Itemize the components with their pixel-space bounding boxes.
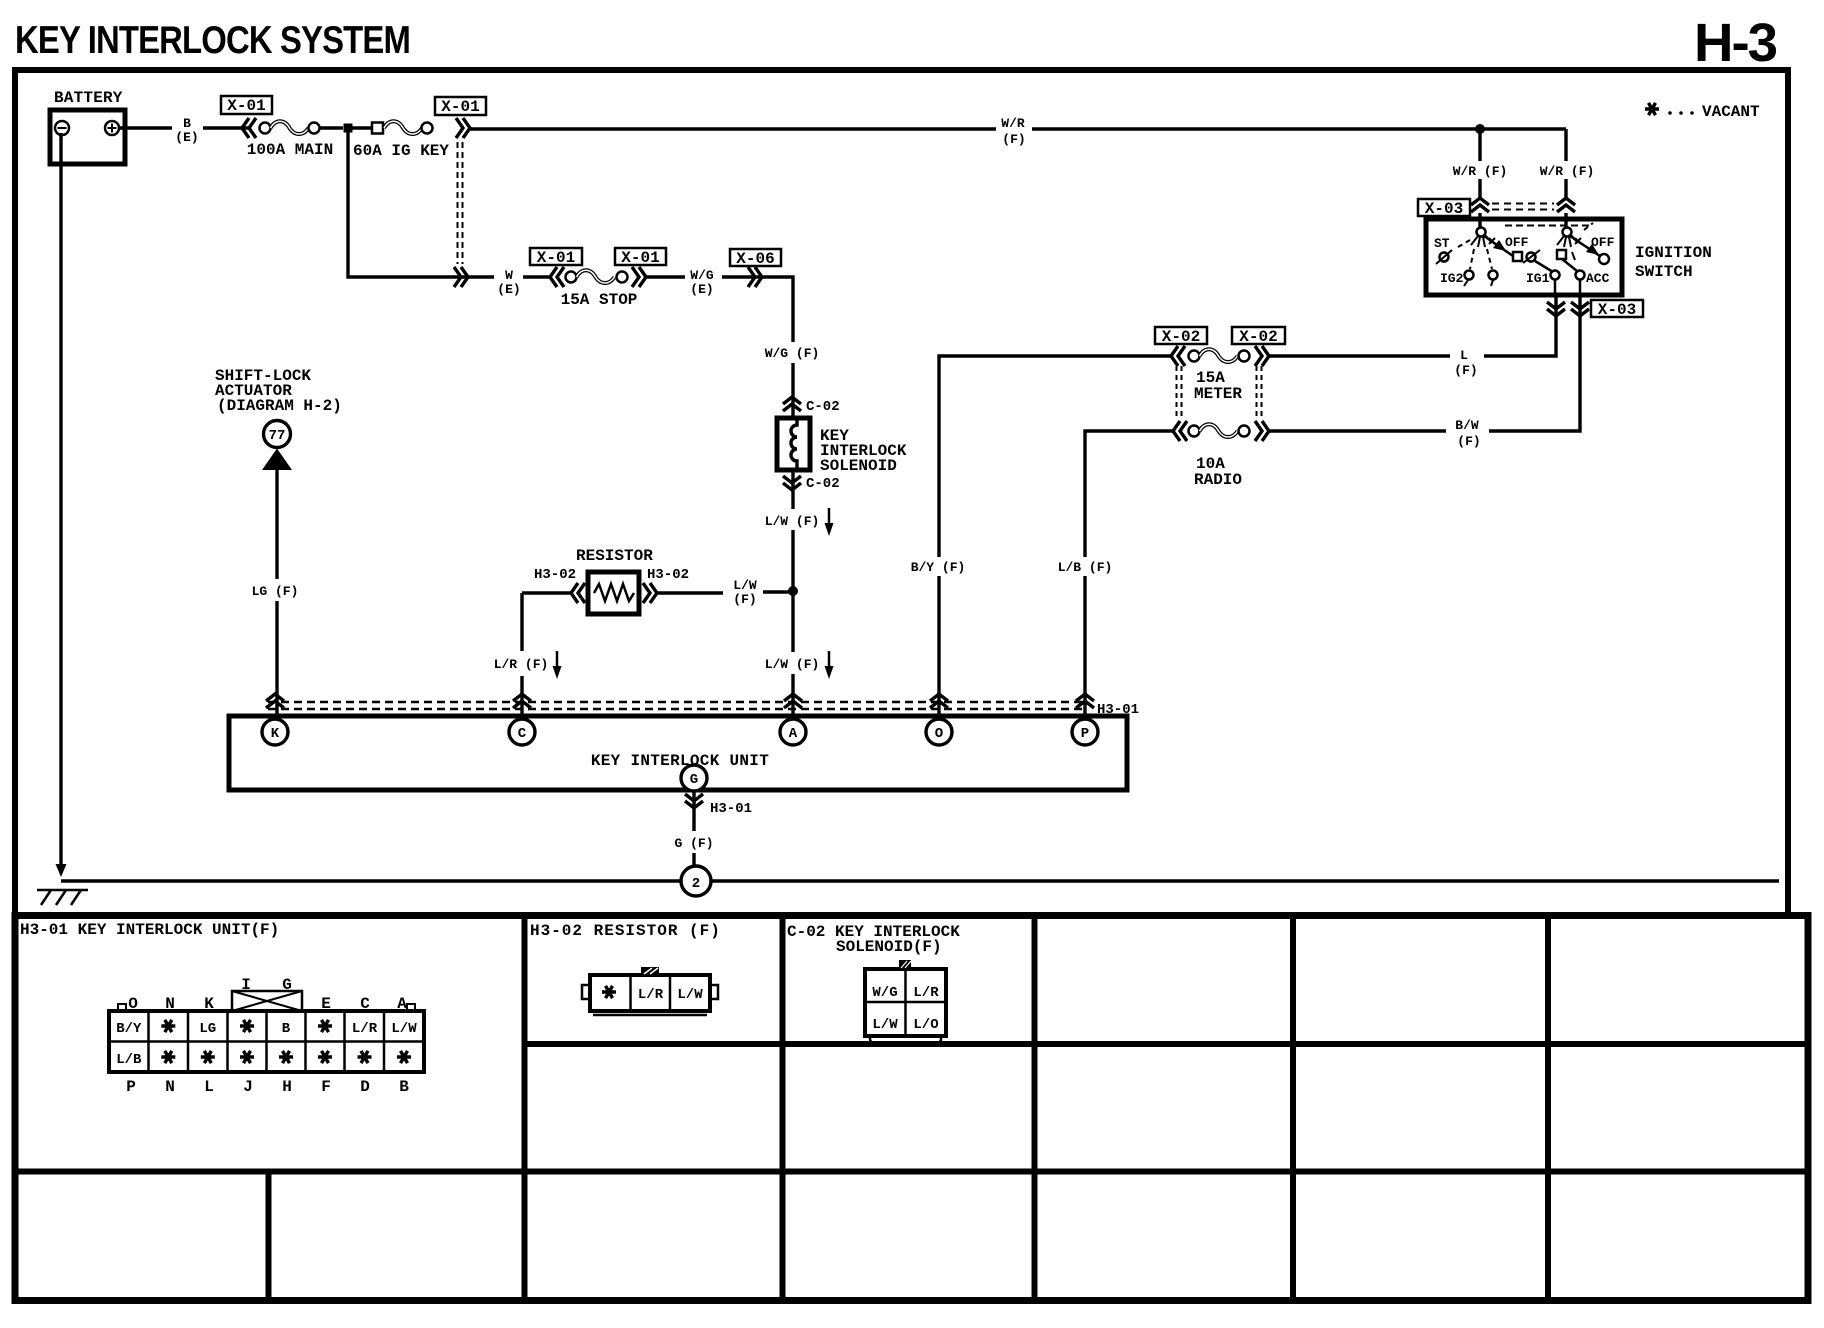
fuse 15A METER <box>1189 349 1250 403</box>
pin G <box>681 765 707 791</box>
legend vacant note <box>1645 103 1760 121</box>
svg-text:L/R: L/R <box>638 987 664 1003</box>
svg-text:L/W: L/W <box>677 987 703 1003</box>
svg-text:W/G: W/G <box>872 985 897 1001</box>
svg-text:O: O <box>128 995 138 1013</box>
ignition switch ST contact <box>1434 236 1470 264</box>
connector X-06 label box <box>730 249 781 268</box>
svg-text:(F): (F) <box>1002 132 1025 147</box>
ignition switch vacant contact left <box>1487 249 1498 286</box>
connector chevron out of 15A STOP <box>632 267 646 287</box>
connector H3-02 pinout drawing <box>582 967 718 1015</box>
svg-text:KEY INTERLOCK UNIT: KEY INTERLOCK UNIT <box>591 752 769 770</box>
resistor <box>588 572 639 614</box>
svg-text:K: K <box>204 995 214 1013</box>
svg-text:O: O <box>935 726 943 742</box>
wire W/R branch to left ignition pivot <box>1478 129 1481 228</box>
connector H3-01 chevron pin K <box>266 694 284 708</box>
wire actuator to unit pin K <box>275 470 278 719</box>
table outer border <box>15 916 1808 1301</box>
junction node W/R at ignition <box>1475 124 1485 134</box>
connector C-02 chevron out <box>783 476 801 490</box>
svg-text:OFF: OFF <box>1505 235 1529 250</box>
shift-lock actuator off-page circle 77 <box>264 421 291 448</box>
connector X-01 chevron on main feed <box>242 118 256 138</box>
svg-text:A: A <box>397 995 407 1013</box>
svg-text:2: 2 <box>692 876 700 892</box>
connector X-01 chevron on W wire <box>454 267 468 287</box>
pin O <box>926 719 952 745</box>
svg-text:BATTERY: BATTERY <box>54 89 123 107</box>
connector X-06 chevron <box>748 267 762 287</box>
svg-text:RADIO: RADIO <box>1194 471 1242 489</box>
wire battery positive to B(E) label <box>119 126 172 129</box>
connector X-03 chevron ACC out <box>1571 302 1589 316</box>
svg-text:L/O: L/O <box>913 1017 938 1033</box>
svg-text:L/R: L/R <box>352 1021 378 1037</box>
ignition switch right OFF arm <box>1570 235 1615 264</box>
connector chevron into resistor <box>571 583 585 603</box>
connector X-03 label box top <box>1418 199 1470 218</box>
connector X-01 chevron out <box>456 118 470 138</box>
connector X-01 label box (stop fuse right) <box>615 248 666 267</box>
connector X-02 dashed links <box>1177 366 1262 420</box>
connector C-02 pinout drawing <box>865 960 946 1043</box>
svg-text:B: B <box>282 1021 291 1037</box>
shift-lock actuator arrow <box>262 449 292 471</box>
svg-text:LG: LG <box>199 1021 216 1037</box>
wire battery negative to ground <box>59 133 62 866</box>
svg-text:G: G <box>282 976 292 994</box>
svg-text:E: E <box>321 995 331 1013</box>
svg-text:L/B (F): L/B (F) <box>1058 560 1113 575</box>
connector chevron out of 15A METER <box>1255 346 1269 366</box>
connector chevron into 10A RADIO <box>1173 421 1187 441</box>
svg-text:H3-01 KEY INTERLOCK UNIT(F): H3-01 KEY INTERLOCK UNIT(F) <box>20 921 279 939</box>
svg-text:A: A <box>789 726 798 742</box>
pin K <box>262 719 288 745</box>
svg-text:D: D <box>360 1078 370 1096</box>
ground bus wire <box>61 879 1779 882</box>
junction node resistor/solenoid <box>788 586 798 596</box>
battery <box>50 110 125 164</box>
svg-text:IG1: IG1 <box>1526 271 1550 286</box>
wire fuse1 to junction <box>320 126 343 129</box>
svg-text:H-3: H-3 <box>1694 13 1777 73</box>
connector H3-01 chevron pin C <box>513 694 531 708</box>
svg-text:X-01: X-01 <box>441 98 479 116</box>
svg-text:B: B <box>183 116 191 131</box>
ignition switch IG1 contact pair <box>1523 250 1560 286</box>
svg-text:L/R (F): L/R (F) <box>494 657 549 672</box>
svg-text:G (F): G (F) <box>674 836 713 851</box>
svg-text:C: C <box>518 726 527 742</box>
wire radio fuse to B/W label <box>1269 429 1446 432</box>
svg-text:W/G: W/G <box>690 268 714 283</box>
svg-text:B/Y (F): B/Y (F) <box>911 560 966 575</box>
svg-text:L/W (F): L/W (F) <box>765 514 820 529</box>
connector X-03 chevron right <box>1557 198 1575 212</box>
svg-text:X-03: X-03 <box>1425 200 1463 218</box>
ignition switch vacant contact right <box>1557 250 1575 260</box>
ground symbol <box>37 890 88 905</box>
connector H3-01 chevron pin O <box>930 694 948 708</box>
wire label L/W (F) lower <box>765 651 834 679</box>
svg-text:L/R: L/R <box>913 985 939 1001</box>
main schematic border frame <box>15 70 1788 916</box>
connector H3-01 row 2 wire codes <box>116 1051 411 1068</box>
svg-text:W/R: W/R <box>1001 116 1025 131</box>
ignition switch left OFF arm <box>1484 235 1529 261</box>
svg-text:C: C <box>360 995 370 1013</box>
svg-text:W/R (F): W/R (F) <box>1453 164 1508 179</box>
table column line 2 <box>780 917 786 1298</box>
connector H3-01 bottom pin letters <box>126 1078 409 1096</box>
svg-text:(E): (E) <box>497 282 520 297</box>
svg-text:77: 77 <box>269 428 286 444</box>
wire pin G to ground circle <box>692 791 695 866</box>
connector chevron out of 10A RADIO <box>1255 421 1269 441</box>
connector X-03 chevron left <box>1471 198 1489 212</box>
table column line 3 <box>1032 917 1038 1298</box>
svg-text:X-01: X-01 <box>227 97 265 115</box>
svg-text:LG (F): LG (F) <box>252 584 299 599</box>
connector X-01 label box (right) <box>435 97 486 116</box>
svg-text:L/B: L/B <box>116 1052 142 1068</box>
connector X-03 label box bottom <box>1591 300 1643 319</box>
key interlock unit U1 <box>229 716 1127 790</box>
svg-text:H: H <box>282 1078 292 1096</box>
svg-text:G: G <box>690 772 698 788</box>
ground connector circle 2 <box>681 866 711 896</box>
svg-text:IG2: IG2 <box>1440 271 1464 286</box>
ignition switch right pivot <box>1557 223 1593 247</box>
svg-text:X-01: X-01 <box>537 249 575 267</box>
wire resistor right to L/W label <box>657 591 723 594</box>
connector H3-01 chevron pin P <box>1076 694 1094 708</box>
connector H3-01 chevron pin A <box>784 694 802 708</box>
svg-text:L/W: L/W <box>733 578 757 593</box>
svg-text:C-02: C-02 <box>806 399 840 415</box>
svg-text:OFF: OFF <box>1591 235 1615 250</box>
ignition switch left pivot <box>1471 228 1495 248</box>
svg-text:SWITCH: SWITCH <box>1635 263 1693 281</box>
wire W/G(F) label to solenoid <box>791 363 794 418</box>
svg-text:H3-02 RESISTOR (F): H3-02 RESISTOR (F) <box>530 922 721 940</box>
svg-text:L/W: L/W <box>872 1017 898 1033</box>
svg-text:(DIAGRAM H-2): (DIAGRAM H-2) <box>217 397 342 415</box>
wire junction to fuse2 <box>352 126 372 129</box>
pin P <box>1072 719 1098 745</box>
ignition switch box <box>1426 219 1622 295</box>
svg-text:H3-02: H3-02 <box>534 567 576 583</box>
svg-text:(E): (E) <box>175 130 198 145</box>
connector X-02 label box right <box>1232 327 1285 346</box>
svg-text:X-03: X-03 <box>1598 301 1636 319</box>
ignition switch ACC contact <box>1562 259 1610 286</box>
connector C-02 chevron in <box>783 397 801 411</box>
connector X-01 dashed link <box>458 142 463 264</box>
key interlock solenoid <box>777 418 907 475</box>
svg-text:ACC: ACC <box>1586 271 1610 286</box>
connector H3-01 pinout drawing <box>109 991 424 1072</box>
fuse 10A RADIO <box>1189 424 1250 489</box>
svg-text:B/Y: B/Y <box>116 1021 142 1037</box>
wire meter fuse to L label <box>1269 354 1450 357</box>
svg-text:15A STOP: 15A STOP <box>561 291 638 309</box>
wire B/W label to ignition ACC <box>1489 296 1580 431</box>
svg-text:B: B <box>399 1078 409 1096</box>
ignition switch internal dashed guide <box>1505 225 1593 227</box>
connector X-01 label box (stop fuse left) <box>530 248 582 267</box>
pin A <box>780 719 806 745</box>
connector H3-01 row 1 wire codes <box>116 1020 417 1037</box>
svg-text:W/R (F): W/R (F) <box>1540 164 1595 179</box>
fuse 100A MAIN <box>247 121 333 159</box>
ignition switch label <box>1635 244 1712 281</box>
svg-text:L: L <box>204 1078 214 1096</box>
svg-text:X-01: X-01 <box>621 249 659 267</box>
svg-text:X-06: X-06 <box>736 250 774 268</box>
wire W/R to label <box>470 127 996 130</box>
svg-text:METER: METER <box>1194 385 1242 403</box>
svg-text:SOLENOID: SOLENOID <box>820 457 897 475</box>
connector X-02 label box left <box>1155 327 1207 346</box>
ignition switch IG2 contact <box>1440 249 1474 286</box>
wire ACC down through box <box>1579 279 1582 296</box>
svg-text:H3-01: H3-01 <box>710 801 752 817</box>
wire W/R label to ignition branch <box>1032 127 1566 130</box>
svg-text:B/W: B/W <box>1455 418 1479 433</box>
svg-text:L/W (F): L/W (F) <box>765 657 820 672</box>
wire fuse to W/G label <box>646 275 685 278</box>
svg-text:L/W: L/W <box>391 1021 417 1037</box>
table column line 1 <box>522 917 528 1298</box>
svg-text:P: P <box>126 1078 136 1096</box>
wire W/R corner to right ignition pivot <box>1564 129 1567 228</box>
connector X-03 dashed link <box>1492 204 1554 210</box>
svg-text:X-02: X-02 <box>1162 328 1200 346</box>
svg-text:N: N <box>165 995 175 1013</box>
wire resistor corner down to unit pin C <box>520 593 523 719</box>
svg-text:100A MAIN: 100A MAIN <box>247 141 333 159</box>
table row line lower <box>15 1169 1808 1175</box>
table header C-02 <box>787 923 960 956</box>
svg-text:N: N <box>165 1078 175 1096</box>
wire L label to ignition IG1 <box>1484 296 1556 356</box>
connector chevron into 15A STOP <box>550 267 564 287</box>
svg-text:(E): (E) <box>690 282 713 297</box>
wire L/W label to junction <box>763 590 790 593</box>
svg-text:C-02: C-02 <box>806 476 840 492</box>
connector chevron out of resistor <box>643 583 657 603</box>
svg-text:F: F <box>321 1078 331 1096</box>
wire W label to fuse 15A STOP <box>523 275 551 278</box>
connector H3-01 chevron pin G <box>685 794 703 808</box>
connector H3-01 dashed bus <box>268 702 1086 709</box>
svg-text:J: J <box>243 1078 253 1096</box>
wire unit pin O up to meter fuse <box>939 356 1171 719</box>
shift-lock actuator label <box>215 367 342 415</box>
svg-text:VACANT: VACANT <box>1702 103 1760 121</box>
svg-text:H3-02: H3-02 <box>647 567 689 583</box>
svg-text:(F): (F) <box>733 592 756 607</box>
svg-text:(F): (F) <box>1457 434 1480 449</box>
svg-text:W/G (F): W/G (F) <box>765 346 820 361</box>
svg-text:I: I <box>241 976 251 994</box>
wire B(E) label to fuse 100A <box>203 126 248 129</box>
wire junction down to stop-fuse row <box>348 128 494 277</box>
table row line upper <box>525 1041 1809 1047</box>
ground arrow head <box>56 864 67 877</box>
wire resistor left to corner <box>522 591 570 594</box>
svg-text:SOLENOID(F): SOLENOID(F) <box>836 938 942 956</box>
table column line 4 <box>1290 917 1296 1298</box>
wire IG1 down through box <box>1554 279 1557 296</box>
svg-text:W: W <box>505 268 513 283</box>
table bottom row divider <box>266 1172 272 1299</box>
wire label L/R (F) <box>494 651 562 679</box>
pin C <box>509 719 535 745</box>
svg-text:K: K <box>271 726 280 742</box>
wire unit pin P up to radio fuse <box>1085 431 1173 719</box>
svg-text:ST: ST <box>1434 236 1450 251</box>
connector H3-01 top pin letters <box>128 976 407 1013</box>
connector chevron into 15A METER <box>1171 346 1185 366</box>
svg-text:P: P <box>1081 726 1089 742</box>
svg-text:IGNITION: IGNITION <box>1635 244 1712 262</box>
wire W/G label to corner <box>722 277 793 342</box>
svg-text:X-02: X-02 <box>1239 328 1277 346</box>
junction node main feed <box>344 124 353 133</box>
fuse 15A STOP <box>561 270 638 309</box>
svg-text:KEY INTERLOCK SYSTEM: KEY INTERLOCK SYSTEM <box>15 19 410 62</box>
svg-text:L: L <box>1460 348 1468 363</box>
svg-text:60A IG KEY: 60A IG KEY <box>353 142 449 160</box>
svg-text:(F): (F) <box>1454 363 1477 378</box>
wire solenoid to key interlock unit pin A <box>791 470 794 719</box>
fuse 60A IG KEY <box>353 121 449 160</box>
connector X-03 chevron IG1 out <box>1547 302 1565 316</box>
table column line 5 <box>1545 917 1551 1298</box>
connector X-01 label box (left) <box>221 96 272 115</box>
wire label L/W (F) upper <box>765 508 834 536</box>
svg-text:RESISTOR: RESISTOR <box>576 547 653 565</box>
